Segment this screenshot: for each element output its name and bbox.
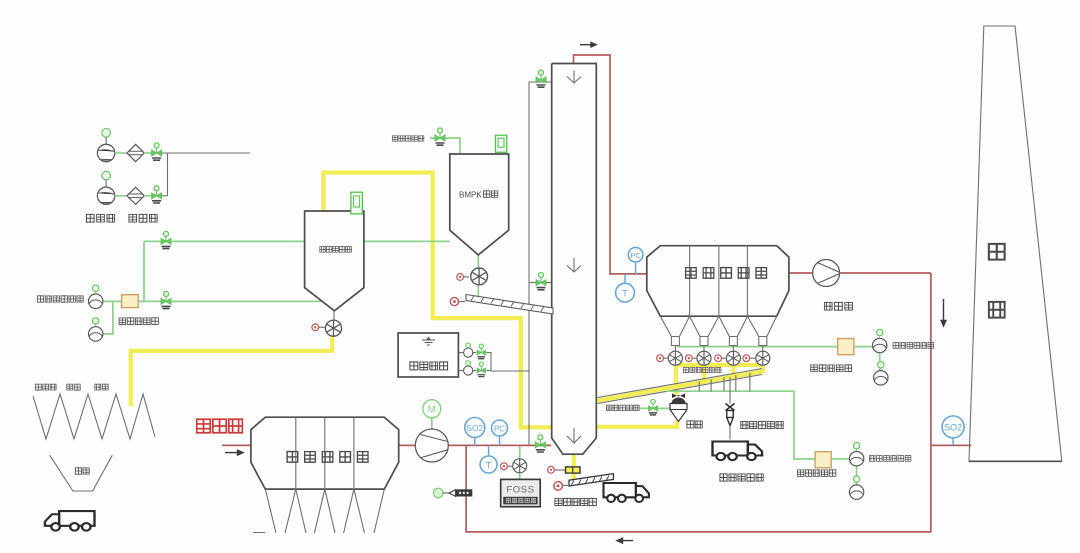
arrow right at ESP inlet — [225, 450, 243, 455]
label 干灰重装机 — [741, 421, 783, 428]
arrow down at stack — [941, 299, 946, 326]
svg-text:PC: PC — [494, 424, 505, 433]
label 再循环物料机 — [683, 367, 721, 372]
rotary valve under silo2 — [471, 268, 488, 285]
slide gate under absorber — [555, 467, 581, 473]
wire green motor stem of ESP fan — [431, 418, 433, 430]
valve on upper fluidizing line — [161, 231, 171, 248]
svg-text:SO2: SO2 — [466, 423, 483, 433]
wire green silo2 top compressed air — [430, 138, 460, 155]
label 仓泵 — [687, 421, 702, 428]
wire red ID fan outlet — [840, 272, 931, 274]
gas analyzer probe — [434, 488, 473, 498]
wire grey water tank pump piping — [458, 353, 529, 371]
raw material zigzag pile — [33, 394, 155, 439]
motor dot screw conveyor 1 — [554, 482, 569, 491]
svg-text:BMPK: BMPK — [459, 191, 482, 200]
wire yellow valve1 drop to bin pump — [674, 365, 678, 394]
label 脱硫灰贮仓 silo1 — [320, 247, 352, 253]
FOSS analyzer box — [501, 479, 541, 506]
wire yellow absorber bottom drop to slide gate — [572, 455, 576, 484]
bag filter body 布袋除尘器 — [647, 246, 789, 317]
svg-text:T: T — [622, 289, 628, 300]
rotary valve on FOSS line — [513, 459, 527, 473]
wire yellow valve2 drop — [702, 365, 706, 381]
bin pump 仓泵 — [670, 394, 687, 422]
motor dot screw conveyor 2 — [450, 298, 465, 306]
label 蒸汽伴热器 lower right — [797, 470, 835, 476]
cold dryer 1 冷干机 — [127, 144, 152, 161]
label 工艺水箱 — [410, 362, 448, 370]
wire green silo2 discharge — [477, 254, 479, 298]
label 水泥 — [67, 384, 80, 390]
label 冷干机 — [129, 214, 157, 222]
silo fluidizing blower 1 粉仓流化风机 — [89, 285, 103, 308]
water tank pump 1 — [464, 343, 473, 357]
wire red absorber top to bag filter — [574, 55, 647, 274]
label 灰斗流化风机 — [893, 343, 934, 349]
label 斜槽流化风机 — [869, 456, 911, 462]
svg-text:M: M — [428, 405, 436, 416]
valve water pump 1 — [477, 344, 486, 359]
motor dot FOSS valve — [501, 463, 513, 470]
wire yellow valve3 drop — [731, 365, 735, 378]
valve on flue gas line at absorber inlet — [535, 435, 545, 452]
label 布袋除尘器 — [686, 268, 767, 279]
label 品粉 — [75, 468, 89, 474]
absorber down arrow top — [567, 71, 581, 84]
hopper fluidizing blower 1 灰斗流化风机 — [873, 329, 887, 352]
air slide chute outline bottom — [598, 375, 763, 404]
ID fan 引风机 — [813, 260, 840, 287]
wire green heater to hopper blowers — [854, 346, 872, 348]
hopper fluidizing blower 2 — [874, 362, 888, 385]
fan motor M — [423, 400, 441, 418]
wire yellow valve4 drop — [761, 365, 765, 373]
absorber down arrow middle — [567, 258, 581, 272]
label 接压缩空气 silo2 — [392, 136, 424, 141]
wire green FOSS analyzer drop — [519, 446, 521, 480]
product funnel — [50, 455, 113, 491]
absorber down arrow bottom — [567, 428, 581, 443]
label 烟囱 vertical — [989, 244, 1005, 260]
chimney 烟囱 — [969, 26, 1062, 461]
motor dot bag valve 2 — [685, 355, 697, 362]
wire green blower2 connection — [103, 301, 113, 334]
valve on lower fluidizing line — [161, 291, 171, 308]
wire green chute blower pair link — [856, 466, 858, 484]
screw conveyor under absorber 螺旋输送机 — [569, 474, 613, 486]
silo2 level indicator — [495, 135, 506, 152]
wire yellow bin pump discharge to absorber bottom — [597, 421, 678, 427]
instrument SO2 at ESP — [465, 418, 485, 446]
motor dot silo1 valve — [312, 324, 326, 331]
motor dot bag valve 4 — [743, 355, 756, 362]
valve on water riser top — [536, 70, 546, 87]
valve on water riser middle — [536, 273, 546, 290]
label 粉煤灰 — [35, 384, 56, 390]
valve water pump 2 — [477, 362, 486, 377]
absorber column — [552, 64, 597, 455]
label 接压缩空气 bin pump — [606, 405, 639, 411]
truck at product funnel — [45, 511, 95, 531]
label 螺旋输送机 — [555, 498, 596, 505]
ESP booster fan — [415, 429, 448, 462]
ESP body 静电除尘器 — [251, 417, 399, 489]
wire green silo1 to silo2 fluidizing — [364, 240, 450, 242]
wire red bag filter to ID fan — [789, 272, 813, 274]
instrument T at bag filter — [616, 274, 635, 302]
wire red stack entry — [931, 444, 971, 446]
screw conveyor under silo2 — [466, 295, 553, 315]
wire red raw flue gas inlet — [222, 444, 251, 446]
rotary valve under silo1 — [325, 320, 341, 336]
wire red fan to absorber — [448, 444, 551, 446]
wire green riser junction — [143, 241, 145, 301]
instrument T at ESP outlet — [480, 445, 497, 473]
wire grey process water riser — [529, 82, 552, 445]
ESP hoppers — [253, 489, 384, 533]
wire red bypass loop bottom — [466, 273, 931, 532]
wire green bin pump air valve line — [640, 407, 670, 409]
air slide chute outline top — [598, 369, 763, 398]
wire green bag hopper fluidizing manifold — [677, 346, 838, 348]
bag filter hopper tip stems — [675, 346, 762, 351]
arrow right at absorber top — [580, 43, 596, 47]
label 空压机 — [86, 214, 114, 222]
bag filter dividers — [690, 246, 748, 317]
wire green fluidizing air upper line to silo1 — [144, 240, 304, 242]
wire green fluidizing air lower line to silo1 cone — [138, 300, 321, 302]
label BMPK料仓 silo2 — [459, 191, 498, 200]
svg-text:SO2: SO2 — [944, 422, 962, 432]
motor dot slide gate — [548, 466, 555, 473]
wire yellow bag filter valves header — [675, 363, 762, 367]
svg-text:PC: PC — [630, 251, 641, 260]
valve after dryer 1 — [152, 143, 162, 160]
dry ash reloader 干灰重装机 — [726, 377, 735, 439]
wire green blower1 to heater box — [103, 300, 122, 302]
water tank pump 2 — [464, 361, 473, 375]
wire yellow silo1 discharge to raw material pile — [131, 337, 333, 407]
label 去品粉生产 — [720, 474, 763, 481]
motor dot bag valve 1 — [657, 355, 669, 362]
svg-text:FOSS: FOSS — [506, 485, 534, 496]
valve bin pump air — [649, 399, 658, 415]
instrument PC at bag filter — [628, 247, 643, 274]
silo2 BMPK料仓 — [450, 154, 509, 255]
wire green hopper blower pair link — [879, 353, 881, 370]
silo1 discharge stem — [333, 311, 335, 321]
wire yellow lime feed: silo1 top to absorber — [323, 173, 551, 428]
wire grey compressed air header — [161, 153, 250, 196]
air compressor 1 空压机 — [97, 129, 127, 162]
air compressor 2 — [97, 171, 127, 204]
air slide chute yellow band — [598, 372, 763, 401]
instrument SO2 at stack — [942, 416, 964, 446]
wire green lower heater to chute blowers — [831, 458, 849, 460]
truck at screw conveyor — [604, 483, 649, 502]
steam heater box lower right — [815, 452, 831, 468]
chimney base line — [969, 460, 1062, 462]
cold dryer 2 — [127, 187, 152, 204]
wire red ESP outlet to fan — [399, 444, 416, 446]
label 原烟气 red — [197, 419, 243, 433]
motor dot silo2 valve — [457, 274, 469, 281]
bag filter rotary valve 3 — [726, 351, 740, 365]
process water tank 工艺水箱 — [398, 333, 458, 377]
arrow left at bottom — [617, 538, 633, 543]
steam heater box 蒸汽伴热器 left — [122, 295, 139, 308]
ESP dividers — [296, 417, 354, 489]
instrument PC at ESP — [492, 420, 508, 445]
chute fluidizing blower 1 斜槽流化风机 — [849, 443, 863, 466]
wire green air slide manifold — [666, 391, 815, 459]
label 镁渣 — [95, 384, 108, 390]
steam heater box upper right — [838, 339, 854, 355]
label 引风机 — [824, 302, 852, 310]
label 静电除尘器 — [287, 452, 368, 463]
bag filter rotary valve 1 — [668, 351, 682, 365]
silo fluidizing blower 2 — [89, 318, 103, 341]
label 蒸汽伴热器 left — [119, 318, 158, 325]
label 蒸汽伴热器 upper right — [811, 365, 852, 372]
chute fluidizing blower 2 — [849, 476, 863, 499]
silo1 脱硫灰贮仓 — [305, 211, 364, 311]
label 粉仓流化风机 — [37, 296, 83, 302]
silo1 level indicator — [351, 192, 363, 214]
valve silo2 compressed air — [435, 128, 445, 145]
bag filter hoppers — [660, 316, 776, 345]
svg-text:T: T — [486, 460, 492, 470]
truck at dry ash reloader — [713, 442, 763, 461]
wire green air slide feeder ticks — [699, 373, 750, 392]
bag filter rotary valve 2 — [697, 351, 711, 365]
bag filter rotary valve 4 — [756, 351, 770, 365]
valve after dryer 2 — [152, 186, 162, 203]
motor dot bag valve 3 — [715, 355, 727, 362]
